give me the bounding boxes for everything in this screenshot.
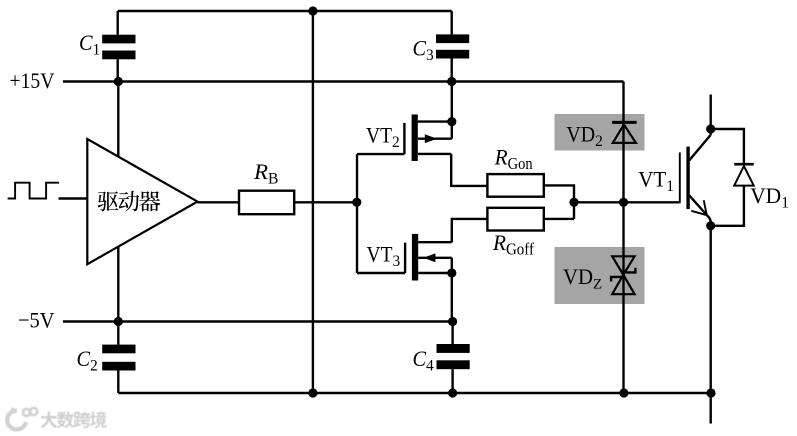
wire C1 bottom lead (116, 59, 118, 81)
svg-text:2: 2 (595, 133, 603, 150)
svg-text:R: R (494, 145, 508, 170)
svg-text:B: B (268, 171, 278, 188)
node emitter bottom-rail junction (706, 388, 715, 397)
wire driver -supply (117, 246, 119, 321)
resistor RGon (487, 174, 543, 197)
transistor VT2 body stub (418, 137, 452, 139)
diode VD2 (612, 121, 637, 124)
wire RGon to node (544, 185, 574, 219)
node output junction (569, 198, 578, 207)
wire bottom rail (118, 392, 711, 394)
transistor VT1 collector lead (689, 135, 710, 160)
node C2 -5V junction (114, 317, 123, 326)
wire to VT3 gate (357, 272, 405, 274)
svg-text:Z: Z (593, 277, 602, 293)
svg-text:C: C (413, 36, 427, 61)
transistor VT2 body arrow (425, 134, 437, 143)
wire -5V rail (63, 320, 453, 322)
watermark logo (7, 408, 37, 430)
capacitor C2 (117, 322, 119, 345)
resistor RGoff (487, 208, 543, 231)
node VT3 source junction (447, 268, 456, 277)
transistor VT3 top stub (418, 241, 452, 243)
svg-text:R: R (492, 230, 506, 255)
svg-text:VD: VD (566, 121, 595, 146)
svg-text:VT: VT (367, 242, 393, 267)
wire VT3 drain to RGoff (452, 219, 488, 242)
diode VD1 top lead (711, 129, 744, 164)
svg-text:4: 4 (426, 358, 434, 375)
wire +15V rail (63, 80, 624, 82)
node C1 +15V junction (114, 77, 123, 86)
label 驱动器 (98, 191, 119, 211)
svg-text:C: C (79, 30, 93, 55)
svg-text:VT: VT (366, 123, 392, 148)
svg-text:C: C (77, 346, 91, 371)
node C4 bottom-rail junction (448, 388, 457, 397)
svg-text:C: C (413, 346, 427, 371)
wire C1 top lead (116, 11, 118, 35)
wire C3 bottom lead (451, 59, 453, 82)
svg-text:Goff: Goff (506, 240, 534, 259)
svg-text:3: 3 (426, 47, 434, 64)
watermark text (41, 411, 58, 428)
transistor VT2 top stub (418, 120, 452, 122)
transistor VT3 channel bar (412, 234, 418, 281)
node VD clamp junction (619, 198, 628, 207)
highlight box for VD2 (555, 114, 645, 151)
wire VT1 collector top (710, 95, 712, 135)
capacitor C3 (436, 34, 469, 43)
svg-text:−5V: −5V (18, 307, 55, 332)
transistor VT2 gate (403, 123, 405, 154)
wire VT2 source vertical (451, 82, 453, 139)
wire top rail (118, 10, 452, 12)
zener VDZ (612, 256, 634, 274)
node VT2 source junction (447, 117, 456, 126)
transistor VT1 gate bar (679, 152, 681, 203)
wire VT2 drain to RGon (451, 154, 487, 186)
svg-text:2: 2 (90, 358, 98, 375)
svg-text:VD: VD (563, 264, 593, 289)
wire C4 bottom lead (451, 369, 453, 393)
resistor RB (239, 191, 294, 215)
svg-text:VT: VT (638, 167, 666, 192)
wire driver output (198, 201, 240, 203)
node RB-gate junction (352, 198, 361, 207)
capacitor C4 (451, 322, 453, 345)
wire +15V down to VD2 node (622, 82, 624, 203)
wire C2 bottom lead (117, 371, 119, 394)
wire driver input (59, 197, 88, 199)
input square-wave symbol (8, 183, 60, 199)
transistor VT2 channel bar (412, 115, 418, 162)
wire RB to gate node (294, 201, 357, 203)
svg-text:+15V: +15V (10, 68, 55, 93)
node collector junction (706, 124, 715, 133)
svg-text:R: R (253, 159, 268, 184)
wire RGoff to node (544, 218, 574, 220)
svg-text:1: 1 (666, 178, 674, 195)
wire gate node vertical (356, 154, 358, 273)
node C3 +15V junction (447, 77, 456, 86)
wire C3 top lead (451, 11, 453, 34)
transistor VT1 emitter lead (689, 195, 710, 222)
svg-text:1: 1 (93, 41, 101, 58)
wire VT1 emitter down (710, 221, 712, 424)
node bottom-rail mid junction (308, 388, 317, 397)
transistor VT1 emitter arrow (691, 200, 707, 215)
wire VT3 source vertical (451, 258, 453, 322)
wire driver +supply (117, 82, 119, 157)
svg-text:1: 1 (781, 195, 789, 212)
transistor VT1 channel bar (686, 147, 689, 210)
capacitor C1 (102, 35, 135, 44)
svg-text:2: 2 (392, 134, 400, 151)
diode VD1 bottom lead (711, 186, 744, 226)
op-amp driver (87, 139, 197, 264)
transistor VT3 bottom stub (418, 272, 452, 274)
diode VD1 (734, 163, 754, 166)
node top-rail junction (308, 6, 317, 15)
transistor VT2 bottom stub (418, 153, 451, 155)
wire VD node to bottom rail (622, 202, 624, 393)
node emitter junction (706, 221, 715, 230)
node C4 -5V junction (448, 317, 457, 326)
transistor VT3 body arrow (423, 253, 435, 262)
wire node to VT1 gate (574, 201, 680, 203)
node VDZ bottom-rail junction (619, 388, 628, 397)
transistor VT3 body stub (418, 257, 452, 259)
wire to VT2 gate (357, 153, 404, 155)
svg-text:VD: VD (750, 183, 781, 208)
svg-text:Gon: Gon (508, 154, 533, 173)
svg-text:3: 3 (393, 253, 401, 270)
wire middle vertical (312, 11, 314, 393)
highlight box for VDZ (555, 247, 645, 304)
transistor VT3 gate (404, 243, 406, 273)
